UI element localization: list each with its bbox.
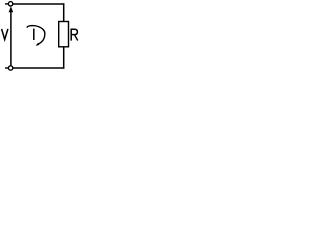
terminal stub bottom-left (5, 67, 8, 69)
voltage arrow V shaft (10, 12, 12, 66)
terminal node circle bottom-left (8, 66, 12, 70)
voltage arrow V head (9, 6, 14, 12)
wire right vertical lower (63, 47, 65, 69)
wire bottom horizontal (13, 67, 65, 69)
label R (drawn glyph) (71, 29, 78, 40)
terminal stub top-left (5, 3, 8, 5)
terminal node circle top-left (8, 2, 12, 6)
current loop arrowhead (36, 43, 40, 46)
label I (drawn glyph) (33, 29, 35, 40)
label V (drawn glyph) (2, 29, 8, 40)
wire right vertical upper (63, 3, 65, 21)
current loop arc arrow (27, 26, 45, 44)
resistor R body (59, 22, 69, 47)
wire top horizontal (13, 3, 65, 5)
